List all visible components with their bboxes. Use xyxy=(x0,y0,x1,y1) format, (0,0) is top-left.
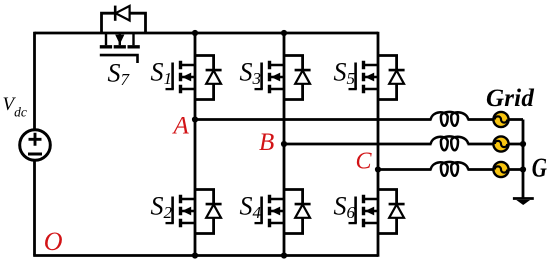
svg-text:O: O xyxy=(44,227,63,256)
antiparallel diode of S6 xyxy=(378,190,405,234)
transistor S5 xyxy=(349,61,379,94)
ac source grid phase A xyxy=(493,112,508,127)
wire leg phase B half-bridge xyxy=(283,33,286,256)
svg-text:C: C xyxy=(356,149,373,175)
transistor S6 xyxy=(349,195,379,228)
antiparallel diode of S7 xyxy=(102,6,146,33)
wire leg phase C half-bridge xyxy=(377,32,380,257)
antiparallel diode of S2 xyxy=(195,190,222,234)
wire top rail xyxy=(35,32,379,35)
transistor S1 xyxy=(166,61,196,94)
node bottom-legB junction xyxy=(281,252,287,258)
svg-text:Grid: Grid xyxy=(486,85,534,112)
wire left vertical from Vdc xyxy=(33,32,36,256)
node B junction xyxy=(281,141,287,147)
transistor S3 xyxy=(255,61,285,94)
svg-text:B: B xyxy=(259,129,274,156)
ground G xyxy=(513,199,534,206)
transistor S4 xyxy=(255,195,285,228)
bus junction phase C / G xyxy=(520,166,526,172)
node C junction xyxy=(375,166,381,172)
node A junction xyxy=(192,116,198,122)
ac source grid phase C xyxy=(493,162,508,177)
antiparallel diode of S5 xyxy=(378,56,405,100)
inductor phase A filter xyxy=(431,112,469,126)
antiparallel diode of S3 xyxy=(284,56,311,100)
transistor S2 xyxy=(166,195,196,228)
node rail-legA junction xyxy=(192,30,198,36)
antiparallel diode of S4 xyxy=(284,190,311,234)
svg-text:G: G xyxy=(532,153,548,183)
dc source Vdc xyxy=(20,130,51,161)
wire grid neutral bus xyxy=(522,120,525,199)
bus junction phase B xyxy=(520,141,526,147)
svg-text:A: A xyxy=(172,113,190,140)
wire phase B output line xyxy=(284,143,523,146)
inductor phase C filter xyxy=(431,162,469,176)
transistor S7 (series switch on dc rail) xyxy=(100,33,140,63)
node rail-legB junction xyxy=(281,30,287,36)
inductor phase B filter xyxy=(431,136,469,150)
node bottom-legA junction xyxy=(192,252,198,258)
ac source grid phase B xyxy=(493,136,508,151)
wire leg phase A half-bridge xyxy=(194,33,197,256)
antiparallel diode of S1 xyxy=(195,56,222,100)
wire phase A output line xyxy=(195,118,523,121)
wire phase C output line xyxy=(378,168,523,171)
wire bottom rail xyxy=(33,254,378,257)
